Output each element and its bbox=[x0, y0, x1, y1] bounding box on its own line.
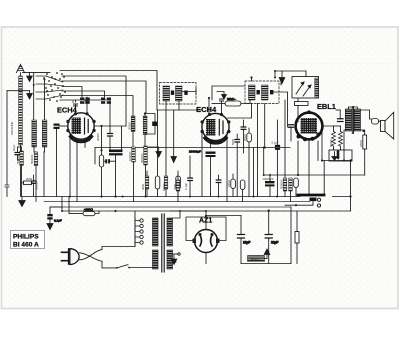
svg-text:20000pF: 20000pF bbox=[189, 150, 201, 154]
resistor 30000 right of tube1 bbox=[99, 125, 103, 198]
resistor 500000 (left 2) bbox=[34, 152, 38, 202]
tube ECH4 #2 envelope bbox=[202, 113, 229, 140]
resistor 500000 (left 1) bbox=[20, 147, 24, 197]
resistor zigzag EBL1 right 1 bbox=[332, 126, 336, 150]
antenna mast bbox=[17, 65, 25, 77]
capacitor 10000pF dark bbox=[265, 175, 275, 197]
scan artifact dotted line bbox=[4, 63, 396, 65]
tube EBL1 electrodes bbox=[297, 110, 321, 141]
svg-text:16μF: 16μF bbox=[243, 241, 250, 245]
transformer taps bbox=[135, 218, 143, 247]
IFT2 cap mid bbox=[257, 90, 260, 94]
oval 240 bbox=[231, 174, 236, 197]
wire B+ riser bbox=[350, 161, 352, 212]
AZ1 side pins bbox=[193, 239, 220, 244]
tube ECH4 #2 rim electrodes bbox=[201, 113, 231, 144]
svg-text:32μF: 32μF bbox=[271, 241, 278, 245]
oscillator coil 1 bbox=[131, 116, 135, 147]
wire transformer to AZ1 bbox=[170, 211, 206, 230]
resistor 500000 mid bbox=[283, 100, 287, 197]
wire AF line y175 bbox=[264, 174, 365, 176]
svg-text:40000: 40000 bbox=[336, 150, 340, 159]
tube ECH4 #1 rim electrodes bbox=[66, 112, 95, 143]
svg-text:100000: 100000 bbox=[128, 151, 132, 161]
wire down to bus bbox=[323, 161, 325, 196]
svg-text:50: 50 bbox=[71, 99, 75, 103]
tube2 top stubs bbox=[208, 97, 224, 114]
wire bbox=[43, 152, 45, 197]
svg-text:50pF: 50pF bbox=[12, 144, 16, 151]
oscillator coil 2 bbox=[143, 112, 147, 134]
wire plate to osc bbox=[94, 126, 126, 150]
oval 2M bbox=[240, 180, 245, 202]
resistor 180 box bbox=[363, 135, 367, 149]
tube1 pin wires down bbox=[69, 133, 71, 197]
capacitor 5000pF bbox=[32, 175, 36, 197]
heater bus line 3 bbox=[50, 206, 291, 208]
IFT1 coil left bbox=[163, 86, 170, 101]
trimmer capacitor pair A bbox=[80, 98, 90, 104]
svg-text:4000Ω: 4000Ω bbox=[251, 257, 259, 261]
svg-text:5000pF: 5000pF bbox=[35, 180, 39, 190]
ground arrow mid top bbox=[279, 71, 285, 84]
resistor below tone network bbox=[295, 98, 309, 114]
wire nest line 4 bbox=[62, 87, 82, 98]
IF transformer 2 dashed box bbox=[245, 81, 279, 104]
tube ECH4 #1 internals bbox=[71, 118, 92, 142]
transformer bottom arrow bbox=[171, 255, 177, 265]
resistor 100000 bbox=[132, 147, 136, 202]
mains plug bbox=[62, 249, 80, 265]
svg-text:AZ1: AZ1 bbox=[199, 218, 212, 225]
IF transformer 1 dashed box bbox=[160, 83, 197, 105]
transformer heater lead bbox=[173, 253, 179, 255]
IFT1 cap right bbox=[184, 91, 187, 95]
oval mid right bbox=[294, 178, 299, 197]
resistor 2M horizontal bbox=[22, 181, 34, 185]
chassis bus lower bbox=[22, 196, 300, 198]
wire nest line 1 bbox=[60, 71, 157, 111]
wire IFT2 to tube2 top bbox=[212, 86, 245, 100]
PSU bottom wire bbox=[241, 263, 291, 265]
ground arrow mid bbox=[149, 147, 162, 157]
capacitor 20000pF dark bbox=[206, 152, 216, 197]
output transformer leads bbox=[348, 107, 357, 109]
tube EBL1 envelope bbox=[296, 113, 323, 140]
IFT1 cap mid bbox=[171, 91, 174, 95]
svg-text:500000: 500000 bbox=[30, 154, 34, 164]
tube ECH4 #1 envelope bbox=[68, 113, 94, 139]
supply bus line 4 bbox=[62, 210, 351, 212]
svg-text:20kΩ~: 20kΩ~ bbox=[227, 97, 236, 101]
resistor 300000 bbox=[144, 146, 148, 197]
stub dot above tone area bbox=[280, 79, 282, 85]
power transformer primary lower bbox=[153, 250, 159, 269]
chassis bus thick segment bbox=[298, 194, 324, 197]
capacitor 0.1 second bbox=[188, 156, 193, 197]
svg-text:10000pF: 10000pF bbox=[263, 177, 274, 181]
capacitor 5000 bbox=[235, 134, 240, 197]
svg-text:ECH4: ECH4 bbox=[196, 105, 217, 114]
wire bbox=[144, 134, 146, 146]
verticals from mid band to buses bbox=[253, 148, 255, 197]
capacitor small on wire bbox=[241, 120, 246, 153]
svg-text:50000: 50000 bbox=[162, 183, 166, 191]
svg-text:70: 70 bbox=[83, 96, 87, 100]
wire plug top to transformer bbox=[102, 218, 135, 250]
oval 250 bbox=[247, 128, 252, 197]
svg-text:EBL1: EBL1 bbox=[317, 102, 336, 111]
svg-text:0,1μF: 0,1μF bbox=[184, 183, 188, 190]
wire lower right h160 bbox=[322, 160, 351, 162]
input coil block left bbox=[32, 120, 37, 147]
wire IFT2 to EBL1 grid bbox=[273, 92, 291, 127]
oval small 157 bbox=[155, 110, 160, 197]
svg-text:500000: 500000 bbox=[279, 179, 283, 189]
PSU right resistor bbox=[295, 211, 299, 264]
tube2 pin wires down bbox=[201, 132, 203, 197]
voice coil component bbox=[372, 119, 379, 125]
capacitor 50pF left bbox=[15, 147, 22, 160]
variable resistor 40000 box bbox=[329, 150, 352, 162]
svg-text:BI 460 A: BI 460 A bbox=[13, 242, 39, 249]
power transformer core bbox=[162, 214, 164, 272]
wire switch to coil block bbox=[33, 73, 35, 120]
wire antenna coil to ground bus bbox=[20, 145, 22, 197]
wire nest line 6 bbox=[62, 96, 133, 117]
wire IFT2 middle down bbox=[257, 104, 259, 197]
wire nest line 3 bbox=[62, 81, 146, 114]
tube EBL1 internals bbox=[301, 118, 318, 134]
IFT2 top stub bbox=[250, 76, 252, 81]
IFT1 coil right bbox=[176, 86, 183, 101]
capacitor 0.1 dark bbox=[275, 120, 280, 197]
input coil block right bbox=[42, 120, 47, 147]
wire tube2 plate to IFT2 bbox=[228, 104, 252, 119]
AZ1 internals bbox=[199, 233, 214, 246]
tone network box bbox=[292, 77, 319, 99]
IFT1 wires down bbox=[165, 101, 167, 176]
wire bbox=[115, 155, 117, 196]
svg-text:50000: 50000 bbox=[329, 139, 333, 147]
tube1 top cap stubs bbox=[74, 97, 90, 113]
wire nest line 5 bbox=[62, 91, 105, 97]
pickup jack bbox=[310, 198, 321, 208]
wire IFT1 to tube2 bbox=[157, 109, 202, 111]
wire long vertical with ground arrow bbox=[173, 110, 175, 157]
wire top AVC line bbox=[274, 70, 306, 79]
filter cap 16uF bbox=[238, 216, 245, 264]
svg-text:500000: 500000 bbox=[16, 154, 20, 164]
ground arrow near antenna bbox=[23, 73, 51, 82]
IFT2 coil right bbox=[262, 85, 269, 100]
svg-text:PHILIPS: PHILIPS bbox=[13, 234, 39, 241]
wire nest line 7 bbox=[60, 100, 110, 134]
transformer lead top bbox=[173, 211, 181, 218]
svg-text:3000: 3000 bbox=[173, 183, 177, 190]
svg-text:2MΩ: 2MΩ bbox=[26, 177, 32, 181]
svg-text:ANTENNE: ANTENNE bbox=[10, 122, 14, 135]
filter cap 32uF bbox=[265, 210, 272, 264]
heater bus line 2 bbox=[44, 201, 310, 203]
node: left pickup wire bbox=[5, 91, 32, 197]
speaker bbox=[381, 112, 394, 139]
resistor zigzag EBL1 right 2 bbox=[334, 126, 343, 150]
power transformer secondary bbox=[167, 218, 173, 246]
capacitor 50pF osc bbox=[108, 134, 113, 150]
dial lamp oval bbox=[69, 197, 99, 216]
resistor 20k oval bbox=[212, 100, 250, 106]
capacitor left of EBL1 bbox=[289, 125, 294, 141]
mains switch bbox=[102, 261, 153, 269]
band switch fan lines bbox=[36, 76, 63, 99]
capacitor small beside 30000 bbox=[104, 159, 116, 163]
svg-text:180Ω: 180Ω bbox=[359, 140, 363, 147]
svg-text:5000: 5000 bbox=[231, 138, 235, 145]
IFT2 coil left bbox=[249, 85, 256, 100]
resistor 3000 bbox=[176, 175, 180, 202]
AZ1 cathode down bbox=[205, 253, 207, 264]
power transformer primary bbox=[153, 218, 159, 246]
band switch contact dots bbox=[43, 72, 66, 102]
PHILIPS label box bbox=[11, 231, 45, 249]
resistor 4000 bbox=[145, 171, 149, 197]
output transformer bbox=[345, 107, 360, 134]
wire bbox=[95, 147, 265, 149]
IFT2 cap right bbox=[270, 90, 273, 94]
antenna coil L1 bbox=[19, 76, 23, 145]
svg-text:240Ω: 240Ω bbox=[227, 180, 231, 187]
svg-text:4000: 4000 bbox=[141, 183, 145, 190]
svg-text:20000: 20000 bbox=[128, 122, 132, 130]
field coil choke bbox=[248, 249, 270, 262]
tube1 grid stub left bbox=[54, 124, 68, 197]
wire IFT2 right down to detector bbox=[265, 104, 290, 148]
wire nest line 2 bbox=[62, 76, 126, 126]
twisted cord bbox=[80, 250, 103, 262]
wire bbox=[44, 80, 46, 121]
AVC arrow hook bbox=[217, 92, 226, 100]
wire IFT1 grid to pot bbox=[182, 88, 196, 95]
trimmer capacitor pair B bbox=[101, 98, 111, 104]
tube ECH4 #2 internals bbox=[205, 119, 226, 143]
wire coil block down bbox=[33, 147, 35, 152]
PSU right vertical bbox=[290, 207, 292, 264]
svg-text:0,1μF: 0,1μF bbox=[54, 219, 62, 223]
svg-text:≈200Ω: ≈200Ω bbox=[84, 208, 94, 212]
resistor 5000 mid bbox=[289, 178, 293, 202]
osc trim capacitor bbox=[145, 114, 157, 135]
wire bbox=[322, 126, 334, 161]
lower row: cap 50pF bbox=[216, 175, 221, 197]
ground arrow left bus bbox=[19, 197, 25, 207]
AZ1 anode wires bbox=[186, 217, 226, 241]
pickup jack wire bbox=[285, 199, 313, 205]
cap with ground mid-left bottom bbox=[47, 197, 62, 230]
junction dots bbox=[61, 147, 278, 213]
wire PSU top bbox=[206, 215, 241, 217]
padder capacitor dark bbox=[109, 150, 123, 156]
resistor 50000 mid bbox=[164, 176, 168, 197]
oval 0,1uF bbox=[176, 171, 181, 197]
svg-text:300000: 300000 bbox=[140, 153, 144, 163]
svg-text:250Ω: 250Ω bbox=[243, 134, 247, 141]
wire EBL1 cathode down bbox=[297, 141, 299, 175]
svg-text:0,1μF: 0,1μF bbox=[272, 141, 279, 145]
svg-text:30000: 30000 bbox=[96, 133, 100, 141]
power transformer secondary lower bbox=[167, 250, 173, 269]
rectifier AZ1 envelope bbox=[195, 230, 218, 253]
tiny rotated value labels bbox=[10, 96, 363, 261]
capacitor left of output transformer bbox=[336, 110, 343, 122]
